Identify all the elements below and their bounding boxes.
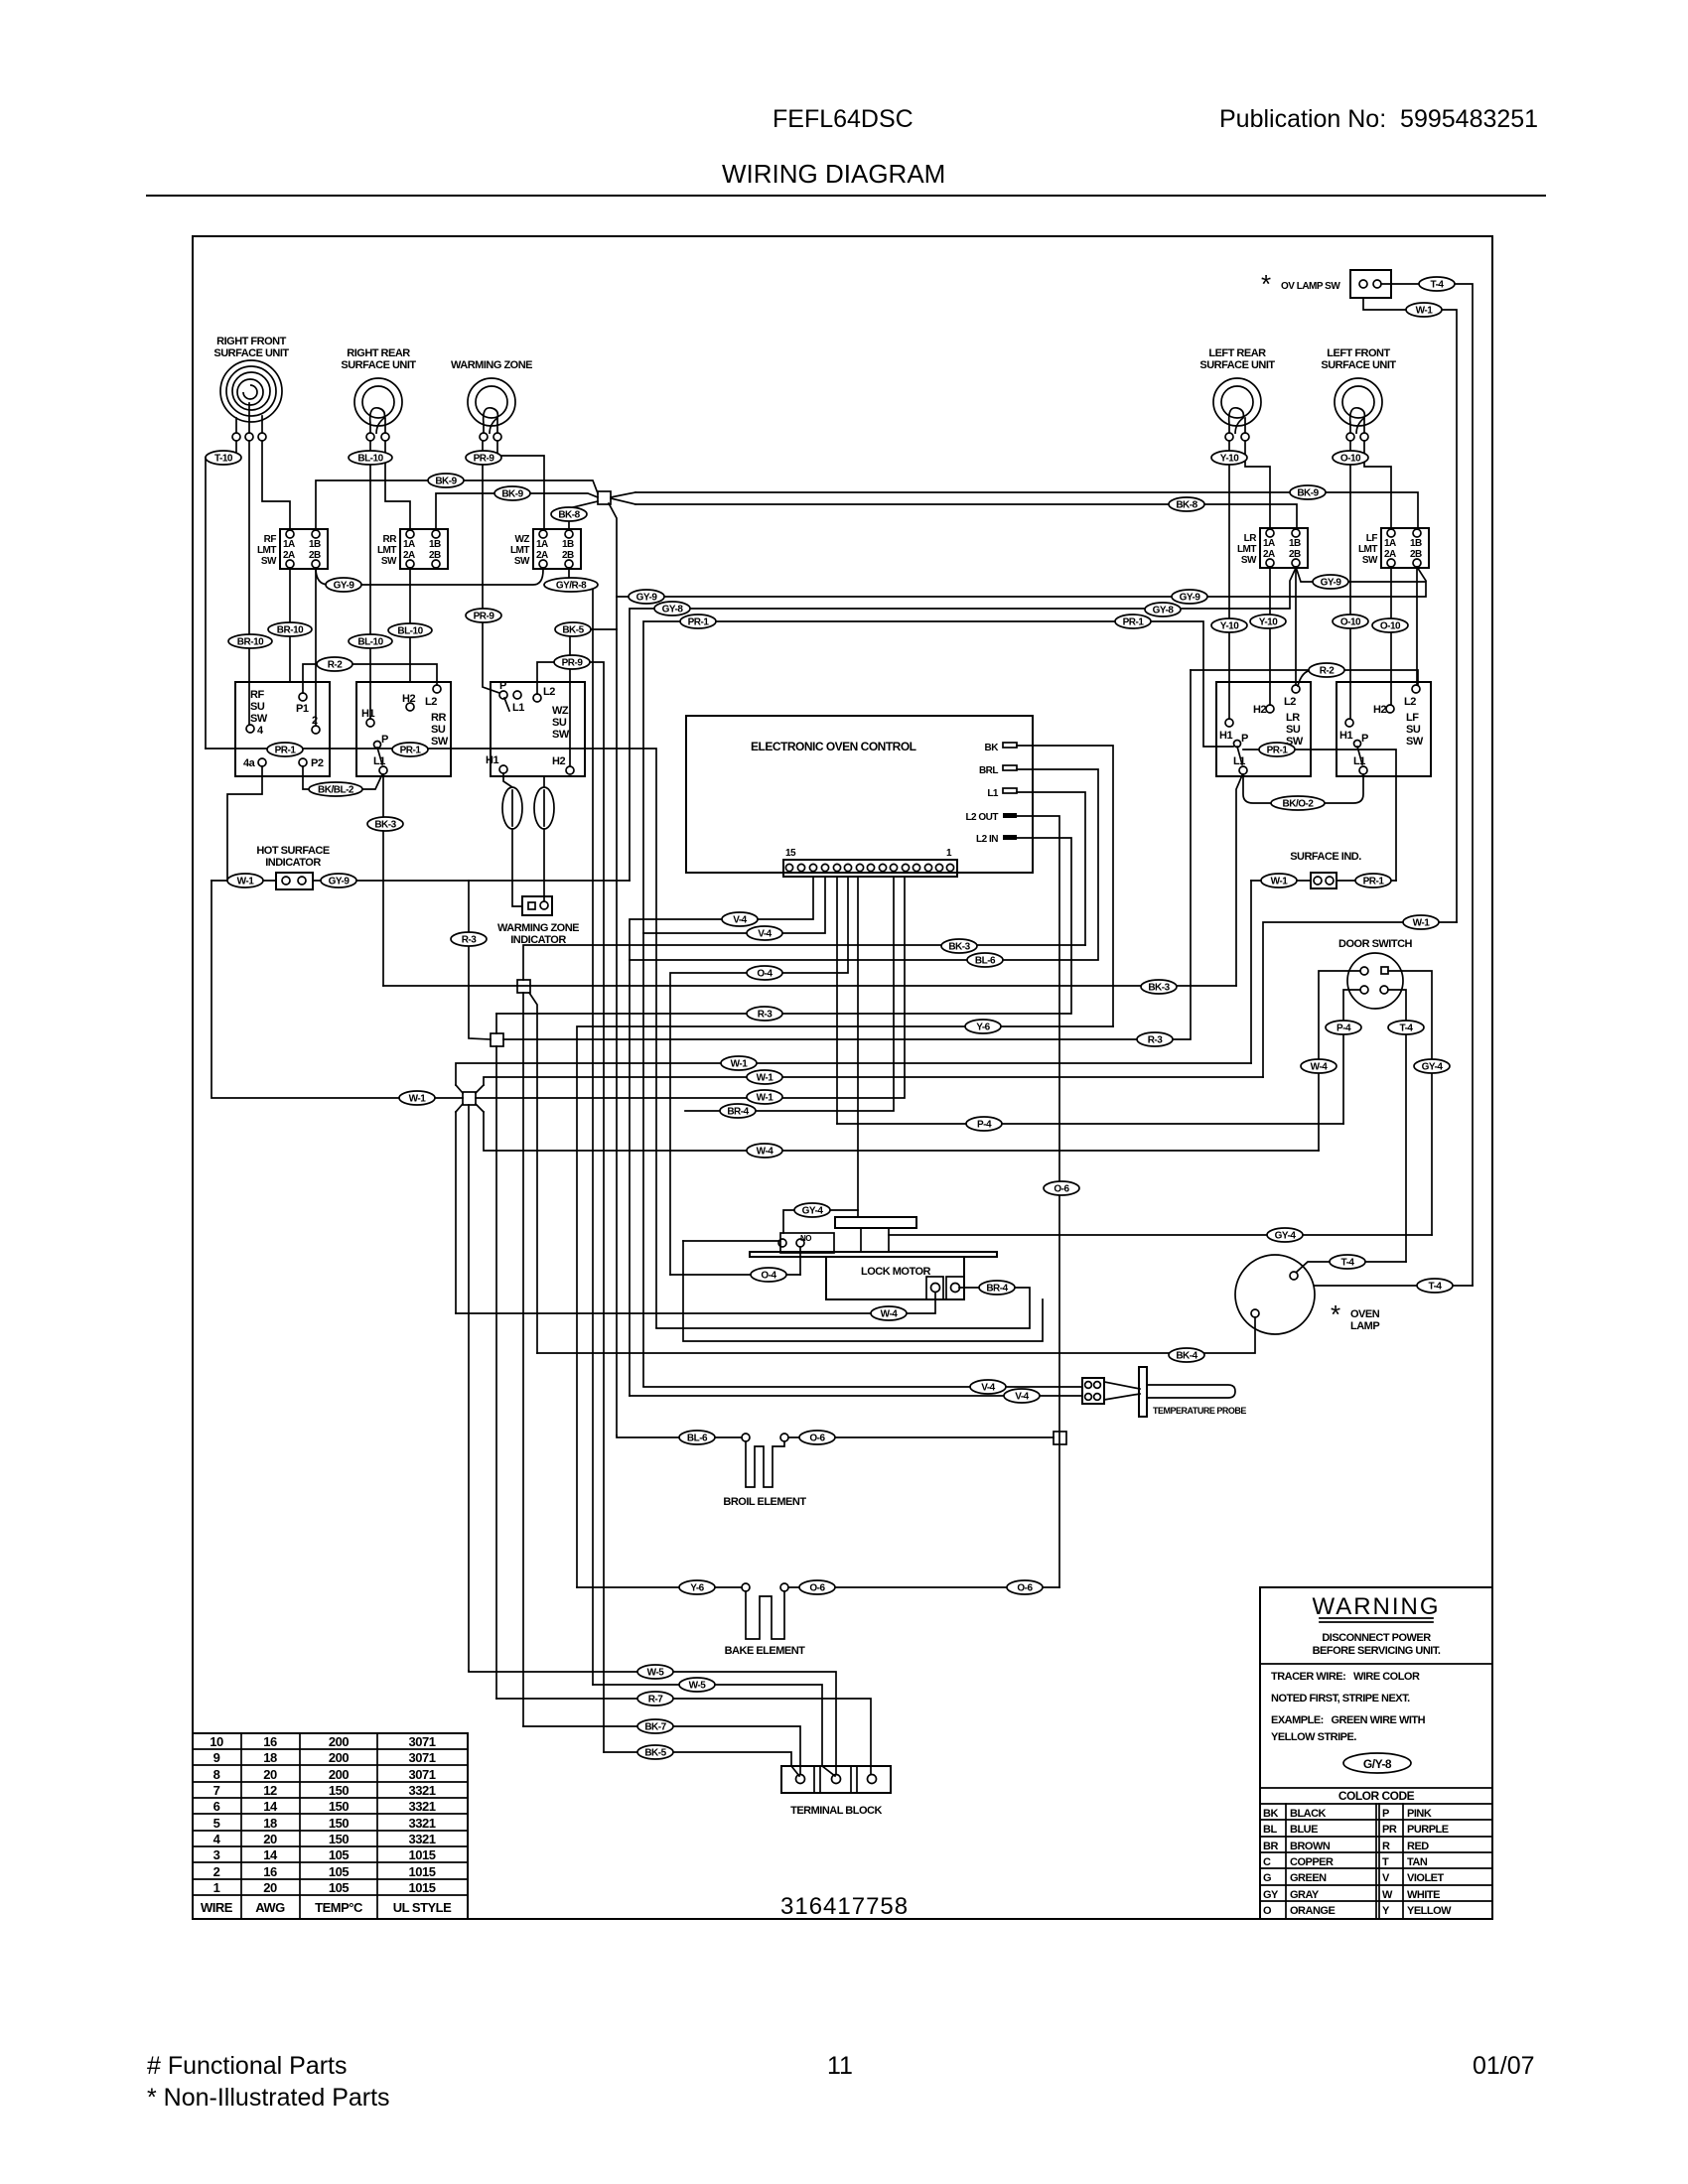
wire PR-1 surface to LR SU SW — [1243, 750, 1396, 881]
svg-text:LOCK MOTOR: LOCK MOTOR — [861, 1266, 931, 1278]
svg-text:WARNING: WARNING — [1312, 1593, 1440, 1620]
wire GY-9 upper bus — [617, 567, 1426, 597]
svg-text:ORANGE: ORANGE — [1290, 1905, 1335, 1917]
wire label BR-10 — [268, 622, 312, 636]
svg-text:BRL: BRL — [979, 765, 998, 776]
svg-text:BEFORE SERVICING UNIT.: BEFORE SERVICING UNIT. — [1313, 1645, 1441, 1657]
svg-text:14: 14 — [263, 1799, 278, 1814]
wire label W-4 — [1301, 1059, 1336, 1073]
limit switch RF LMT SW — [257, 529, 328, 569]
svg-text:RIGHT FRONT: RIGHT FRONT — [216, 336, 286, 347]
surface switch RF SU SW — [235, 682, 330, 776]
svg-text:SU: SU — [552, 717, 567, 729]
wire LR lead to LR LMT 1A — [1245, 441, 1270, 528]
svg-text:2A: 2A — [536, 550, 548, 561]
svg-text:2B: 2B — [429, 550, 441, 561]
svg-text:150: 150 — [329, 1799, 349, 1814]
wire GY/R-8 WZ 2B down long — [569, 568, 593, 1685]
wire label O-6 — [1007, 1580, 1043, 1594]
wire label O-10 — [1333, 614, 1368, 628]
wire LR lead to H1 — [1228, 441, 1230, 719]
svg-text:SURFACE UNIT: SURFACE UNIT — [1199, 359, 1275, 371]
svg-text:RR: RR — [431, 712, 446, 724]
wire label W-1 — [1406, 303, 1442, 317]
wire pill2 stub — [543, 776, 545, 787]
svg-text:T-4: T-4 — [1400, 1024, 1414, 1034]
wire LF lead to LF LMT 1A — [1364, 441, 1391, 528]
svg-text:PR-9: PR-9 — [562, 658, 584, 669]
wire label GY-9 — [1172, 590, 1207, 604]
svg-text:PR-1: PR-1 — [275, 746, 297, 756]
wire junction B diagonal down — [529, 993, 537, 1353]
svg-text:TRACER WIRE: WIRE COLOR: TRACER WIRE: WIRE COLOR — [1271, 1671, 1420, 1683]
svg-text:L2 OUT: L2 OUT — [965, 812, 998, 823]
wire O-4 lock motor — [670, 1274, 800, 1276]
junction node A (bus arrow) — [598, 491, 635, 504]
wire label GY-9 — [629, 590, 664, 604]
svg-text:8: 8 — [213, 1767, 220, 1782]
svg-text:BK/BL-2: BK/BL-2 — [318, 785, 354, 796]
warming zone indicator lamps — [502, 787, 554, 829]
svg-text:1B: 1B — [309, 539, 321, 550]
svg-text:WIRING DIAGRAM: WIRING DIAGRAM — [722, 159, 945, 189]
svg-text:2A: 2A — [1263, 549, 1275, 560]
wire BK-3 from junction B — [523, 945, 1085, 980]
svg-text:*: * — [1261, 269, 1271, 299]
svg-text:Y-10: Y-10 — [1220, 621, 1240, 632]
svg-text:W-1: W-1 — [237, 877, 255, 887]
svg-text:1A: 1A — [1384, 538, 1396, 549]
wire W-1 left drop — [211, 881, 463, 1098]
svg-text:PR-1: PR-1 — [1123, 617, 1145, 628]
wire door sw LT — [1319, 971, 1360, 1151]
wire BK/O-2 LR L1 to LF L1 — [1243, 774, 1363, 803]
wire GY-4 lock motor — [783, 1210, 858, 1233]
wire RR lead to H1 — [369, 441, 371, 719]
wire BR-4 row — [685, 877, 894, 1111]
svg-text:BR: BR — [1263, 1841, 1278, 1852]
wire P-4 row — [837, 1123, 1343, 1125]
svg-text:BR-10: BR-10 — [237, 637, 264, 648]
svg-text:3071: 3071 — [409, 1767, 436, 1782]
wire RF LMT 2B to terminal 2 — [315, 568, 317, 726]
svg-text:P-4: P-4 — [1336, 1024, 1351, 1034]
surface unit LR (left rear) coil — [1199, 347, 1275, 441]
svg-text:O-6: O-6 — [1017, 1583, 1033, 1594]
svg-text:Y: Y — [1382, 1905, 1390, 1917]
svg-text:BL-10: BL-10 — [357, 637, 383, 648]
svg-text:* Non-Illustrated Parts: * Non-Illustrated Parts — [147, 2084, 390, 2112]
svg-text:O-4: O-4 — [761, 1271, 776, 1282]
wire BK-5 run bottom — [604, 1752, 799, 1776]
svg-text:LAMP: LAMP — [1350, 1320, 1379, 1332]
svg-text:T-4: T-4 — [1341, 1258, 1355, 1269]
svg-text:BROIL ELEMENT: BROIL ELEMENT — [723, 1496, 806, 1508]
wire label BK-5 — [637, 1745, 673, 1759]
svg-text:*: * — [1331, 1299, 1340, 1329]
svg-text:2A: 2A — [1384, 549, 1396, 560]
svg-text:SU: SU — [1286, 724, 1301, 736]
main border — [193, 236, 1492, 1919]
wire RF lead to terminal 4 — [248, 441, 250, 725]
wire 4a run — [227, 766, 262, 881]
svg-text:LMT: LMT — [1358, 544, 1377, 555]
wire label W-1 — [1261, 874, 1297, 887]
wire GY-9 long bus — [609, 503, 617, 1435]
wire LF LMT 2A to H2 — [1390, 567, 1392, 705]
svg-text:10: 10 — [210, 1734, 223, 1749]
svg-text:BR-10: BR-10 — [277, 625, 304, 636]
svg-text:3321: 3321 — [409, 1816, 436, 1831]
svg-text:105: 105 — [329, 1880, 349, 1895]
wire label R-2 — [1309, 663, 1344, 677]
svg-text:200: 200 — [329, 1750, 349, 1765]
svg-text:3071: 3071 — [409, 1734, 436, 1749]
wire label BR-4 — [979, 1281, 1015, 1295]
svg-text:Y-6: Y-6 — [976, 1023, 990, 1033]
limit switch WZ LMT SW — [510, 529, 581, 569]
svg-text:BK-5: BK-5 — [562, 625, 584, 636]
temperature probe — [1082, 1367, 1246, 1417]
svg-text:WZ: WZ — [514, 534, 529, 545]
svg-text:L2: L2 — [1404, 696, 1416, 708]
wire label BK-3 — [1141, 980, 1177, 994]
wire RR L1 down to junction B — [382, 774, 384, 986]
svg-text:O-10: O-10 — [1340, 617, 1361, 628]
wire label BL-6 — [679, 1431, 715, 1444]
svg-text:GY/R-8: GY/R-8 — [556, 581, 587, 592]
oven lamp — [1235, 1255, 1380, 1334]
wire O-4 lock stub — [799, 1247, 801, 1275]
svg-text:O-4: O-4 — [757, 969, 773, 980]
svg-text:1: 1 — [213, 1880, 220, 1895]
svg-text:O-10: O-10 — [1340, 454, 1361, 465]
svg-text:V-4: V-4 — [758, 929, 772, 940]
wire LR LMT 2A to H2 — [1269, 567, 1271, 705]
svg-text:NOTED FIRST, STRIPE NEXT.: NOTED FIRST, STRIPE NEXT. — [1271, 1693, 1410, 1705]
wire label BK-8 — [551, 507, 587, 521]
svg-text:R: R — [1382, 1841, 1390, 1852]
wire pill2 to indicator — [543, 829, 545, 900]
wire LF lead to H1 — [1349, 441, 1351, 719]
wire label PR-1 — [392, 743, 428, 756]
wire L2 OUT output — [1017, 816, 1059, 1587]
svg-text:SW: SW — [1362, 555, 1378, 566]
svg-text:P2: P2 — [311, 757, 324, 769]
svg-text:RIGHT REAR: RIGHT REAR — [347, 347, 410, 359]
wire O-6 broil — [788, 1436, 1054, 1438]
wire LF 2B to GY-9 — [1417, 567, 1426, 581]
wire BK-7 vertical from junction B — [522, 993, 524, 1726]
svg-text:SW: SW — [1241, 555, 1257, 566]
wire label W-1 — [227, 874, 263, 887]
wire label W-1 — [721, 1056, 757, 1070]
svg-text:T-10: T-10 — [214, 454, 233, 465]
wire W-1 surface ind — [1251, 880, 1311, 882]
svg-text:20: 20 — [263, 1832, 277, 1846]
svg-text:WZ: WZ — [552, 705, 569, 717]
svg-text:LF: LF — [1406, 712, 1419, 724]
wire W-1 from ov lamp sw — [1363, 298, 1457, 922]
terminal block — [781, 1766, 891, 1817]
limit switch LF LMT SW — [1358, 528, 1429, 568]
svg-text:COPPER: COPPER — [1290, 1856, 1334, 1868]
wire label GY-4 — [794, 1203, 830, 1217]
wire label R-3 — [1137, 1032, 1173, 1046]
wire label W-5 — [679, 1678, 715, 1692]
svg-text:GY-4: GY-4 — [802, 1206, 824, 1217]
wire label BK-7 — [637, 1719, 673, 1733]
svg-text:V-4: V-4 — [1015, 1392, 1029, 1403]
svg-text:R-2: R-2 — [1320, 666, 1336, 677]
svg-text:LF: LF — [1366, 533, 1378, 544]
svg-text:BK/O-2: BK/O-2 — [1283, 799, 1315, 810]
wire RR LMT 2A down to RR SU SW — [409, 568, 411, 682]
svg-text:# Functional Parts: # Functional Parts — [147, 2052, 348, 2080]
wire W-1 bowtie down — [468, 1105, 470, 1671]
wire W-1 row 3 — [476, 877, 905, 1098]
svg-text:T-4: T-4 — [1429, 1282, 1443, 1293]
svg-text:1B: 1B — [562, 539, 574, 550]
svg-text:GY-8: GY-8 — [662, 605, 684, 615]
wire BK-4 row — [537, 1317, 1255, 1353]
svg-text:L2: L2 — [1284, 696, 1296, 708]
wire W-1 y929 row — [1263, 922, 1457, 1077]
svg-text:1B: 1B — [1410, 538, 1422, 549]
svg-text:BK-3: BK-3 — [374, 820, 396, 831]
wire label Y-10 — [1211, 618, 1247, 632]
lock motor — [750, 1217, 997, 1299]
svg-text:W-4: W-4 — [881, 1309, 899, 1320]
svg-text:W-1: W-1 — [1271, 877, 1289, 887]
svg-text:BLACK: BLACK — [1290, 1808, 1327, 1820]
svg-text:W-4: W-4 — [1311, 1062, 1329, 1073]
svg-text:V-4: V-4 — [981, 1383, 995, 1394]
svg-text:1A: 1A — [283, 539, 295, 550]
svg-text:PR-1: PR-1 — [1363, 877, 1385, 887]
svg-text:FEFL64DSC: FEFL64DSC — [773, 105, 914, 133]
electronic oven control U1 — [686, 716, 1033, 873]
svg-text:P1: P1 — [296, 703, 309, 715]
svg-text:SW: SW — [261, 556, 277, 567]
svg-text:BK-9: BK-9 — [435, 477, 457, 487]
wire label O-6 — [799, 1580, 835, 1594]
svg-text:SW: SW — [250, 713, 268, 725]
wire label PR-1 — [267, 743, 303, 756]
svg-text:14: 14 — [263, 1847, 278, 1862]
svg-text:BL: BL — [1263, 1824, 1277, 1836]
wire V-4 probe 1 — [643, 1386, 1082, 1388]
svg-text:150: 150 — [329, 1816, 349, 1831]
wire label O-4 — [747, 966, 782, 980]
wire RF lead to RF LMT 1A — [262, 441, 290, 529]
svg-text:BL-6: BL-6 — [975, 956, 996, 967]
svg-text:GRAY: GRAY — [1290, 1889, 1320, 1901]
svg-text:1B: 1B — [1289, 538, 1301, 549]
svg-text:GY-9: GY-9 — [334, 581, 355, 592]
warning box — [1260, 1587, 1492, 1919]
wire label R-3 — [747, 1007, 782, 1021]
wire label T-4 — [1419, 277, 1455, 291]
svg-text:150: 150 — [329, 1783, 349, 1798]
svg-text:SW: SW — [514, 556, 530, 567]
wire label PR-9 — [466, 451, 501, 465]
svg-text:W-4: W-4 — [757, 1147, 774, 1158]
svg-text:PR-1: PR-1 — [688, 617, 710, 628]
wire BK/BL-2 P2 to RR L1 — [303, 766, 382, 789]
svg-text:GY-9: GY-9 — [1180, 593, 1201, 604]
wire label BK-3 — [367, 817, 403, 831]
svg-text:1A: 1A — [403, 539, 415, 550]
wire PR-1 switch row — [206, 749, 656, 1327]
svg-text:RR: RR — [383, 534, 398, 545]
footer — [147, 2052, 1535, 2112]
svg-text:TAN: TAN — [1407, 1856, 1428, 1868]
wire label BK/O-2 — [1271, 796, 1325, 810]
svg-text:P: P — [499, 680, 506, 692]
svg-text:105: 105 — [329, 1864, 349, 1879]
wire label R-3 — [451, 932, 487, 946]
svg-text:2: 2 — [213, 1864, 220, 1879]
svg-text:2B: 2B — [1410, 549, 1422, 560]
svg-text:SURFACE UNIT: SURFACE UNIT — [341, 359, 416, 371]
wire RF lead to T-10 run — [206, 441, 236, 749]
wire label R-7 — [637, 1692, 673, 1706]
svg-text:SW: SW — [431, 736, 449, 748]
wire RR lead to RR LMT 1B — [385, 441, 410, 529]
svg-text:P: P — [381, 734, 388, 746]
publication number — [1219, 105, 1538, 133]
svg-text:LMT: LMT — [257, 545, 276, 556]
svg-text:COLOR CODE: COLOR CODE — [1338, 1789, 1415, 1803]
svg-text:WIRE: WIRE — [201, 1900, 233, 1915]
wire label PR-1 — [1355, 874, 1391, 887]
svg-text:W-1: W-1 — [757, 1093, 774, 1104]
bake element — [725, 1583, 806, 1657]
svg-text:T-4: T-4 — [1431, 280, 1445, 291]
wire W-4 row — [484, 1112, 1319, 1151]
svg-text:2B: 2B — [309, 550, 321, 561]
wire BK-5 run — [570, 629, 617, 766]
wire BK-9 bus upper to LF LMT 1B — [635, 492, 1418, 529]
svg-text:W-5: W-5 — [689, 1681, 707, 1692]
svg-text:BK-4: BK-4 — [1176, 1351, 1197, 1362]
svg-text:20: 20 — [263, 1880, 277, 1895]
svg-text:PR-1: PR-1 — [400, 746, 422, 756]
wire junction C down long — [495, 1046, 497, 1699]
wire pin 13 drop V-4 — [630, 877, 813, 1396]
wire door sw RB — [1388, 990, 1406, 1262]
wire label GY-8 — [654, 602, 690, 615]
svg-text:GREEN: GREEN — [1290, 1872, 1327, 1884]
wire W-4 lock motor — [456, 1293, 935, 1313]
svg-text:L1: L1 — [1353, 755, 1365, 767]
wire BR-4 lock motor — [656, 1288, 1030, 1328]
svg-text:LEFT FRONT: LEFT FRONT — [1327, 347, 1390, 359]
svg-text:Y-10: Y-10 — [1220, 454, 1240, 465]
junction node B — [517, 980, 530, 993]
wire junction C right arm — [503, 670, 1191, 1039]
surface unit WZ (warming zone) coil — [451, 359, 532, 441]
svg-text:H2: H2 — [552, 755, 565, 767]
wire door sw RT — [1388, 971, 1432, 1235]
svg-text:PR-9: PR-9 — [474, 454, 495, 465]
svg-text:DISCONNECT POWER: DISCONNECT POWER — [1322, 1632, 1431, 1644]
svg-text:L1: L1 — [1233, 755, 1245, 767]
wire label R-2 — [317, 657, 352, 671]
svg-text:SW: SW — [1406, 736, 1424, 748]
wire pin 9 drop O-4 — [670, 877, 848, 1275]
surface unit RR (right rear) coil — [341, 347, 416, 441]
svg-text:GY: GY — [1263, 1889, 1279, 1901]
junction node D (bowtie) — [456, 1085, 484, 1112]
door switch — [1338, 938, 1412, 1009]
svg-text:9: 9 — [213, 1750, 220, 1765]
svg-text:H1: H1 — [1219, 730, 1232, 742]
wire label BL-6 — [967, 953, 1003, 967]
svg-text:1A: 1A — [536, 539, 548, 550]
wire bowtie to lock W-4 — [455, 1112, 457, 1313]
svg-text:Y-10: Y-10 — [1259, 617, 1279, 628]
EOC terminal strip pins 15..1 — [783, 848, 957, 877]
svg-text:H1: H1 — [361, 708, 374, 720]
wire PR-1 long bus — [643, 621, 1233, 1386]
svg-text:3321: 3321 — [409, 1783, 436, 1798]
svg-text:2A: 2A — [283, 550, 295, 561]
junction node E (broil/L2OUT) — [1054, 1432, 1066, 1444]
wire label PR-1 — [1259, 743, 1295, 756]
svg-text:H2: H2 — [1253, 704, 1266, 716]
svg-text:3071: 3071 — [409, 1750, 436, 1765]
svg-text:DOOR SWITCH: DOOR SWITCH — [1338, 938, 1412, 950]
wire label GY-4 — [1414, 1059, 1450, 1073]
wire L2 IN output — [1017, 838, 1071, 1014]
svg-text:PR-9: PR-9 — [474, 612, 495, 622]
svg-text:PINK: PINK — [1407, 1808, 1432, 1820]
svg-text:2: 2 — [312, 715, 318, 727]
svg-text:SU: SU — [250, 701, 265, 713]
wire BK-3 junction row — [383, 985, 1236, 987]
wire label V-4 — [722, 912, 758, 926]
limit switch LR LMT SW — [1237, 528, 1308, 568]
wire R-3 vertical — [469, 881, 491, 1039]
svg-text:ELECTRONIC OVEN CONTROL: ELECTRONIC OVEN CONTROL — [751, 740, 916, 753]
svg-text:O: O — [1263, 1905, 1272, 1917]
wire LR LMT 2B to L2 — [1295, 567, 1297, 685]
svg-text:P: P — [1382, 1808, 1389, 1820]
svg-text:150: 150 — [329, 1832, 349, 1846]
svg-text:Y-6: Y-6 — [690, 1583, 704, 1594]
wire label W-1 — [747, 1090, 782, 1104]
wire label O-10 — [1372, 618, 1408, 632]
svg-text:L2: L2 — [425, 696, 437, 708]
wire label GY-9 — [326, 578, 361, 592]
wire label W-5 — [637, 1665, 673, 1679]
wire label T-4 — [1330, 1255, 1365, 1269]
wire label W-4 — [747, 1144, 782, 1158]
part number 316417758 — [780, 1893, 909, 1920]
wire BL-6 broil — [617, 1435, 742, 1437]
wire pill to indicator — [512, 829, 522, 906]
wire PR-1 surface ind — [1336, 880, 1396, 882]
wire pin 10 drop P-4 — [836, 877, 838, 1124]
wire label Y-6 — [679, 1580, 715, 1594]
surface switch RR SU SW — [356, 682, 451, 776]
svg-text:20: 20 — [263, 1767, 277, 1782]
wire label W-1 — [747, 1070, 782, 1084]
svg-text:W-1: W-1 — [1413, 918, 1431, 929]
svg-text:BK-9: BK-9 — [501, 489, 523, 500]
